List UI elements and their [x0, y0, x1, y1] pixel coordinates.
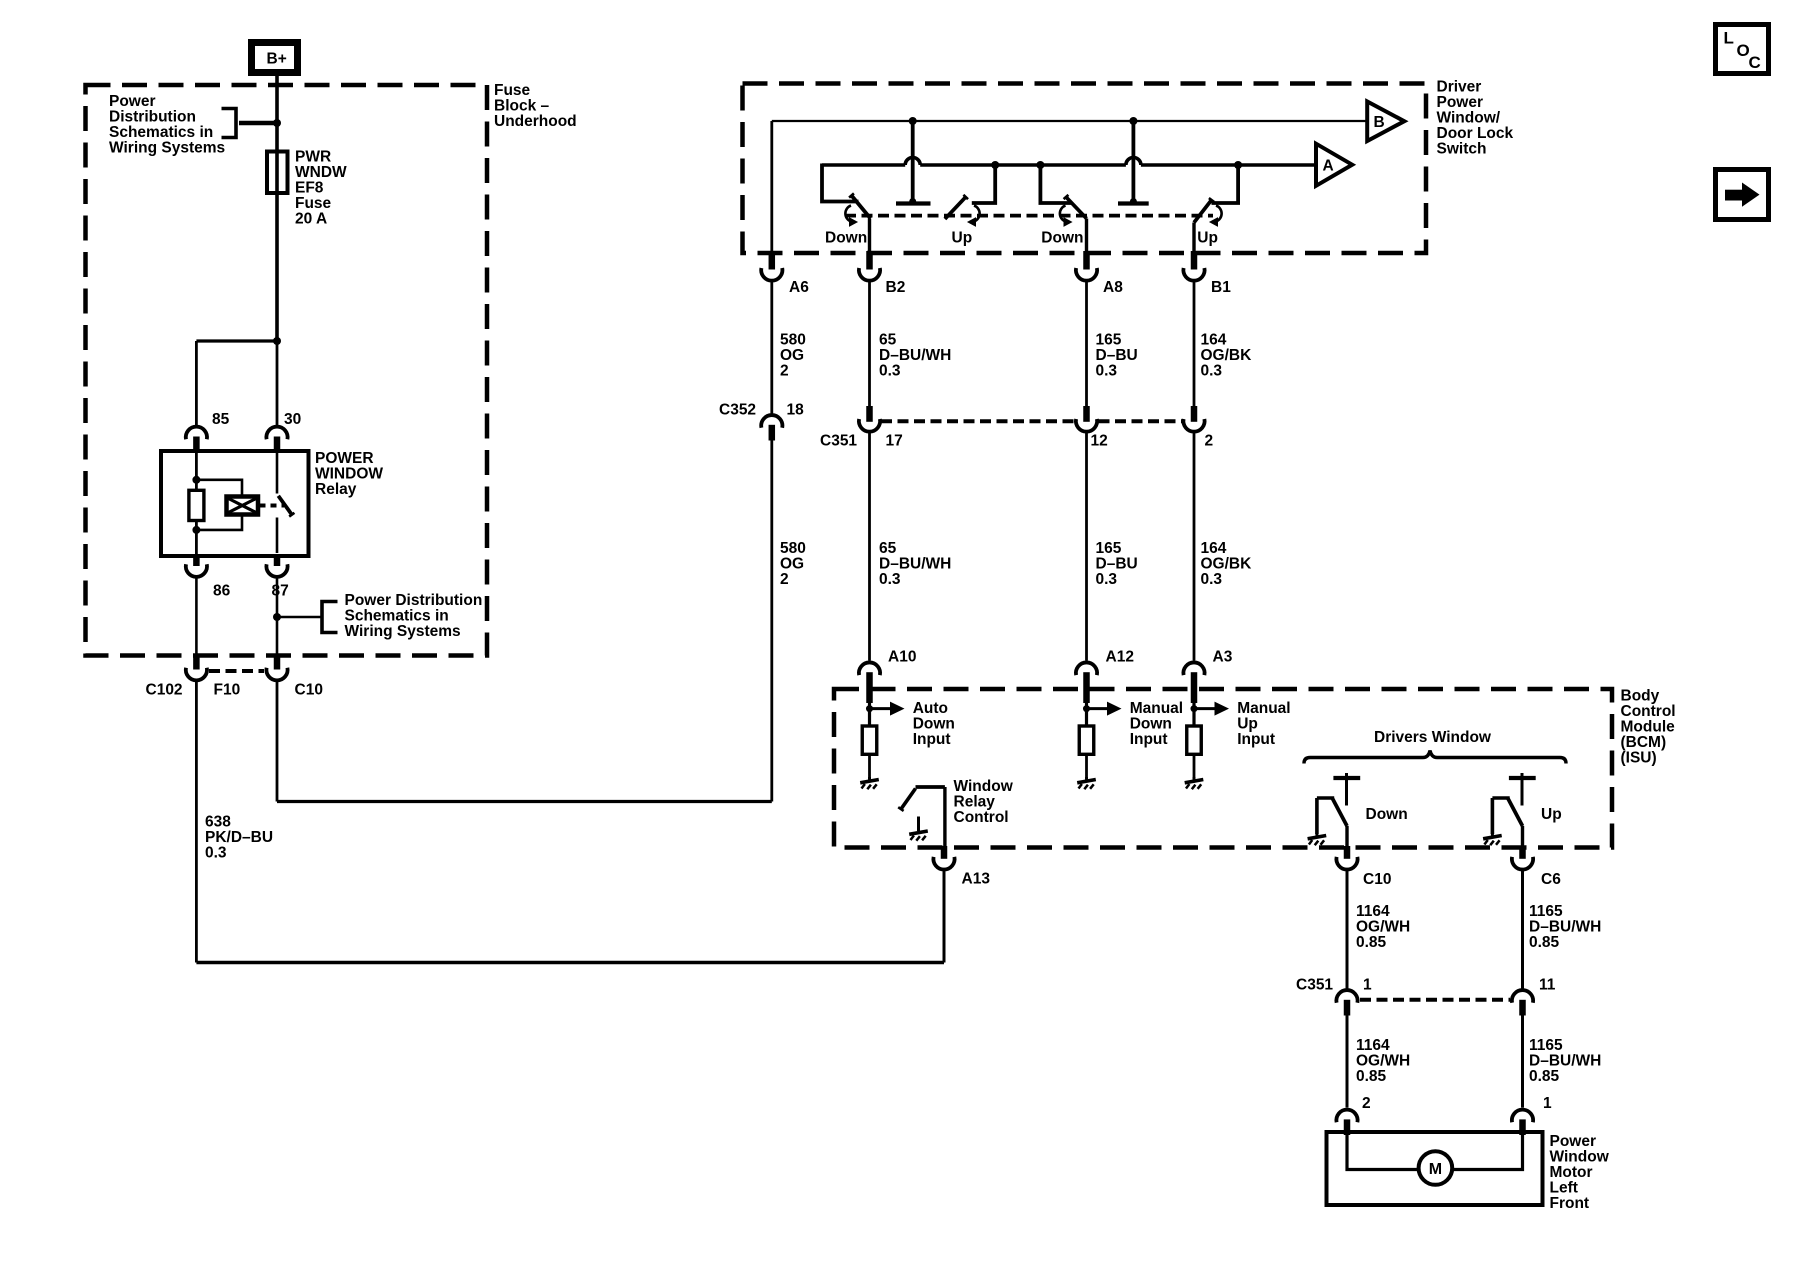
label Driver Power Window/ Door Lock Switch — [1437, 78, 1514, 157]
svg-text:164: 164 — [1201, 331, 1227, 348]
wire window relay control output — [943, 787, 946, 848]
label fuse PWR WNDW EF8 Fuse 20 A — [295, 149, 347, 228]
connector pin A10 — [859, 662, 880, 675]
icon LOC box — [1716, 25, 1769, 74]
wire to power distribution bracket — [239, 121, 277, 126]
connector pin 30 — [266, 427, 287, 440]
connector pin A13 — [941, 846, 948, 859]
wire 580 OG segment 1 — [770, 281, 773, 415]
resistor Auto Down Input — [862, 726, 877, 754]
icon forward arrow box — [1716, 170, 1769, 220]
svg-text:1164: 1164 — [1356, 1037, 1390, 1054]
wire motor feed left — [1347, 1135, 1419, 1170]
svg-text:Down: Down — [1041, 229, 1083, 246]
wire S1 Down output to B2 — [868, 219, 871, 254]
svg-text:Wiring Systems: Wiring Systems — [109, 140, 225, 157]
node junction to power distribution (bottom) — [273, 613, 281, 621]
connector pin B1 — [1191, 251, 1198, 270]
svg-text:Relay: Relay — [315, 481, 357, 498]
svg-text:A3: A3 — [1213, 649, 1233, 666]
svg-text:Manual: Manual — [1237, 700, 1290, 717]
svg-text:Power: Power — [1437, 94, 1484, 111]
wire 1164 OG/WH segment 2 — [1346, 1016, 1349, 1108]
label Auto Down Input — [913, 700, 955, 748]
svg-text:0.3: 0.3 — [205, 845, 227, 862]
wire 1164 OG/WH segment 1 — [1346, 871, 1349, 990]
svg-text:Fuse: Fuse — [494, 82, 531, 99]
svg-text:D–BU/WH: D–BU/WH — [1529, 918, 1601, 935]
svg-text:Wiring Systems: Wiring Systems — [345, 623, 461, 640]
svg-text:87: 87 — [272, 583, 289, 600]
node coil top — [192, 476, 200, 484]
svg-text:Drivers Window: Drivers Window — [1374, 729, 1492, 746]
connector C351 dashed link b — [1099, 419, 1183, 423]
switch S1 common T contact — [911, 121, 915, 202]
switch drivers window Down arm — [1332, 798, 1347, 826]
wire pin 86 down — [195, 578, 198, 657]
svg-text:C102: C102 — [146, 681, 183, 698]
resistor Manual Up Input — [1187, 726, 1202, 754]
svg-text:0.3: 0.3 — [1096, 362, 1118, 379]
switch S1 Up stationary contact — [972, 165, 995, 203]
node Auto Down Input tap — [866, 705, 873, 712]
svg-text:Underhood: Underhood — [494, 113, 577, 130]
wire relay coil bottom — [195, 521, 198, 557]
svg-text:638: 638 — [205, 814, 231, 831]
svg-text:Power: Power — [1550, 1133, 1597, 1150]
svg-text:OG: OG — [780, 556, 804, 573]
svg-text:D–BU: D–BU — [1096, 347, 1138, 364]
body control module dashed box — [834, 689, 1612, 848]
svg-text:L: L — [1724, 29, 1734, 48]
svg-text:Block –: Block – — [494, 98, 550, 115]
svg-text:17: 17 — [886, 433, 903, 450]
wire crossover hump 1 — [905, 158, 920, 165]
bracket power distribution (top) — [222, 109, 237, 138]
svg-text:D–BU: D–BU — [1096, 556, 1138, 573]
svg-text:C352: C352 — [719, 402, 756, 419]
node coil bottom — [192, 526, 200, 534]
wire 164 OG/BK segment 1 — [1193, 281, 1196, 407]
label wire 65 D-BU/WH 0.3 (upper) — [879, 331, 951, 379]
svg-text:Power Distribution: Power Distribution — [345, 592, 483, 609]
svg-text:Up: Up — [1237, 715, 1258, 732]
svg-text:C6: C6 — [1541, 871, 1561, 888]
svg-text:Front: Front — [1550, 1195, 1590, 1212]
relay K - POWER WINDOW Relay box — [161, 451, 309, 556]
label wire 1165 D-BU/WH 0.85 (lower) — [1529, 1037, 1601, 1085]
arrow Auto Down Input — [870, 707, 891, 710]
svg-text:18: 18 — [787, 402, 805, 419]
svg-text:Module: Module — [1621, 719, 1676, 736]
wire Manual Up Input to ground — [1193, 754, 1196, 778]
svg-text:Down: Down — [913, 715, 955, 732]
svg-text:0.85: 0.85 — [1356, 1068, 1387, 1085]
svg-text:165: 165 — [1096, 331, 1122, 348]
svg-text:65: 65 — [879, 331, 897, 348]
svg-text:65: 65 — [879, 540, 897, 557]
svg-text:1: 1 — [1543, 1095, 1552, 1112]
ground drivers window Up — [1483, 833, 1502, 845]
svg-text:Power: Power — [109, 93, 156, 110]
label POWER WINDOW Relay — [315, 450, 383, 498]
svg-text:580: 580 — [780, 540, 806, 557]
svg-text:0.85: 0.85 — [1356, 934, 1387, 951]
label Fuse Block - Underhood — [494, 82, 577, 130]
connector motor pin 1 — [1512, 1110, 1533, 1123]
svg-text:0.3: 0.3 — [1201, 362, 1223, 379]
svg-text:B2: B2 — [886, 279, 906, 296]
wire branch to relay pin 85 — [196, 339, 277, 342]
svg-text:C: C — [1749, 53, 1761, 72]
switch drivers window Down ground leg — [1317, 796, 1334, 800]
svg-text:2: 2 — [1205, 433, 1214, 450]
label Power Distribution Schematics in Wiring Systems (bottom) — [345, 592, 483, 640]
wire 1165 D-BU/WH segment 1 — [1521, 871, 1524, 990]
svg-text:2: 2 — [780, 362, 789, 379]
wire Manual Down Input pull-down — [1085, 703, 1088, 726]
svg-text:1165: 1165 — [1529, 1037, 1563, 1054]
svg-text:1: 1 — [1363, 976, 1372, 993]
power node B+ — [252, 43, 298, 73]
svg-text:2: 2 — [1362, 1095, 1371, 1112]
svg-text:Window: Window — [1550, 1149, 1610, 1166]
svg-text:1164: 1164 — [1356, 903, 1390, 920]
ground window relay control — [909, 829, 928, 841]
svg-text:1165: 1165 — [1529, 903, 1563, 920]
svg-text:Input: Input — [1237, 731, 1275, 748]
ground Manual Down Input — [1077, 777, 1096, 789]
wire coil loop — [196, 480, 242, 497]
svg-text:OG/BK: OG/BK — [1201, 556, 1253, 573]
label wire 165 D-BU 0.3 (lower) — [1096, 540, 1138, 588]
wire bus B (upper) — [772, 120, 1367, 122]
switch S2 common T contact — [1132, 121, 1136, 202]
connector pin 86 — [193, 554, 200, 566]
power window motor box — [1327, 1132, 1543, 1205]
svg-text:F10: F10 — [214, 681, 241, 698]
wire S2 Down output to A8 — [1085, 219, 1088, 254]
svg-text:OG/WH: OG/WH — [1356, 918, 1410, 935]
svg-text:Door Lock: Door Lock — [1437, 125, 1514, 142]
svg-text:Auto: Auto — [913, 700, 948, 717]
wire to relay pin 30 — [276, 341, 279, 426]
wire 65 D-BU/WH segment 1 — [868, 281, 871, 407]
svg-text:PK/D–BU: PK/D–BU — [205, 829, 273, 846]
svg-text:Down: Down — [1130, 715, 1172, 732]
svg-text:0.3: 0.3 — [879, 571, 901, 588]
svg-text:Manual: Manual — [1130, 700, 1183, 717]
connector pin 87 — [274, 554, 281, 566]
svg-text:Up: Up — [1541, 806, 1562, 823]
svg-text:D–BU/WH: D–BU/WH — [879, 556, 951, 573]
connector motor pin 2 — [1336, 1110, 1357, 1123]
arrow Manual Down Input — [1087, 707, 1108, 710]
buffer triangle A — [1316, 144, 1352, 186]
switch S2 Down arm — [1066, 197, 1087, 219]
switch S2 Up stationary contact — [1212, 165, 1239, 203]
wire 638 PK/D-BU vertical — [195, 682, 198, 963]
svg-text:C351: C351 — [820, 433, 857, 450]
label Manual Down Input — [1130, 700, 1183, 748]
relay actuator dashed link — [260, 504, 285, 508]
svg-text:0.3: 0.3 — [879, 362, 901, 379]
wire Manual Down Input to ground — [1085, 754, 1088, 778]
svg-text:Input: Input — [1130, 731, 1168, 748]
label wire 580 OG 2 (lower) — [780, 540, 806, 588]
svg-text:Control: Control — [954, 809, 1009, 826]
svg-text:D–BU/WH: D–BU/WH — [879, 347, 951, 364]
connector C351 pin 17 — [866, 406, 873, 422]
switch S2 Down stationary contact — [1040, 165, 1072, 203]
switch S1 Up arm — [945, 197, 966, 219]
switch S1 Down momentary arrow — [845, 206, 851, 222]
connector C351 pin 2 — [1191, 406, 1198, 422]
svg-text:Window/: Window/ — [1437, 109, 1501, 126]
motor M symbol — [1419, 1151, 1453, 1185]
wire motor feed right — [1452, 1135, 1522, 1170]
switch window relay control arm — [901, 789, 916, 810]
node bus A tap 3 — [1234, 161, 1242, 169]
connector pin A3 — [1183, 662, 1204, 675]
wire crossover hump 2 — [1126, 158, 1141, 165]
arrow Manual Up Input — [1194, 707, 1215, 710]
switch window relay control contact — [916, 785, 945, 789]
svg-text:(ISU): (ISU) — [1621, 750, 1657, 767]
label wire 164 OG/BK 0.3 (upper) — [1201, 331, 1253, 379]
svg-text:86: 86 — [213, 583, 231, 600]
switch drivers window Up arm — [1508, 798, 1523, 826]
svg-text:A: A — [1323, 158, 1334, 175]
svg-text:A8: A8 — [1103, 279, 1123, 296]
buffer triangle B — [1367, 102, 1404, 142]
relay switch arm — [278, 496, 292, 515]
svg-text:Relay: Relay — [954, 793, 996, 810]
svg-text:Up: Up — [1197, 229, 1218, 246]
svg-text:A12: A12 — [1106, 649, 1134, 666]
svg-text:Input: Input — [913, 731, 951, 748]
svg-text:B+: B+ — [267, 51, 287, 68]
svg-text:85: 85 — [212, 411, 230, 428]
label Power Distribution Schematics in Wiring Systems (top) — [109, 93, 225, 157]
svg-text:164: 164 — [1201, 540, 1227, 557]
switch S1 Up momentary arrow — [974, 206, 980, 222]
svg-text:165: 165 — [1096, 540, 1122, 557]
wire Auto Down Input pull-down — [868, 703, 871, 726]
label wire 165 D-BU 0.3 (upper) — [1096, 331, 1138, 379]
connector pin A6 — [769, 251, 776, 270]
svg-text:Control: Control — [1621, 703, 1676, 720]
bracket power distribution (bottom) — [322, 602, 338, 633]
svg-text:0.3: 0.3 — [1096, 571, 1118, 588]
connector C351 dashed link a — [881, 419, 1075, 423]
label Window Relay Control — [954, 778, 1014, 826]
connector pin B2 — [866, 251, 873, 270]
label Manual Up Input — [1237, 700, 1290, 748]
switch S2 Up arm — [1194, 200, 1212, 223]
wire 165 D-BU segment 2 — [1085, 432, 1088, 661]
svg-text:OG/BK: OG/BK — [1201, 347, 1253, 364]
label wire 65 D-BU/WH 0.3 (lower) — [879, 540, 951, 588]
svg-text:Body: Body — [1621, 688, 1660, 705]
ground Manual Up Input — [1185, 777, 1204, 789]
svg-text:12: 12 — [1091, 433, 1108, 450]
node bus A tap 1 — [991, 161, 999, 169]
svg-text:Schematics in: Schematics in — [109, 124, 213, 141]
label Power Window Motor Left Front — [1550, 1133, 1610, 1212]
window relay control ground contact — [917, 817, 920, 830]
wire 65 D-BU/WH segment 2 — [868, 432, 871, 661]
switch S2 Up momentary arrow — [1216, 206, 1222, 222]
svg-text:Down: Down — [1366, 806, 1408, 823]
svg-text:Distribution: Distribution — [109, 109, 196, 126]
label wire 1164 OG/WH 0.85 (lower) — [1356, 1037, 1410, 1085]
wire relay coil top — [195, 451, 198, 490]
node bus B tap 2 — [1129, 117, 1137, 125]
svg-text:0.85: 0.85 — [1529, 934, 1560, 951]
svg-text:Up: Up — [952, 229, 973, 246]
svg-text:C351: C351 — [1296, 976, 1333, 993]
connector C351 dashed link (lower) — [1360, 998, 1510, 1002]
switch S1 Down arm — [852, 196, 871, 219]
svg-text:Left: Left — [1550, 1180, 1578, 1197]
svg-text:2: 2 — [780, 571, 789, 588]
fuse PWR WNDW EF8 20A — [267, 152, 288, 194]
svg-text:B1: B1 — [1211, 279, 1231, 296]
node relay feed junction — [273, 337, 281, 345]
wire 580 OG from C10 to C352 riser — [276, 682, 279, 802]
fuse block dashed box — [86, 85, 488, 656]
label wire 1165 D-BU/WH 0.85 (upper) — [1529, 903, 1601, 951]
connector C351 pin 11 — [1512, 990, 1533, 1003]
switch mechanical linkage dashed line — [845, 214, 1213, 218]
wire drivers window Up output — [1521, 826, 1524, 847]
wire Auto Down Input to ground — [868, 754, 871, 778]
svg-text:C10: C10 — [295, 681, 323, 698]
label wire 580 OG 2 (upper) — [780, 331, 806, 379]
node Manual Down Input tap — [1083, 705, 1090, 712]
svg-text:Schematics in: Schematics in — [345, 608, 449, 625]
wire to power distribution bracket (bottom) — [277, 616, 322, 619]
connector pin A12 — [1076, 662, 1097, 675]
svg-text:Driver: Driver — [1437, 78, 1482, 95]
ground Auto Down Input — [860, 777, 879, 789]
svg-text:11: 11 — [1539, 976, 1556, 993]
node junction to power distribution — [273, 119, 281, 127]
switch drivers window Up fixed contact — [1509, 776, 1536, 780]
svg-text:Switch: Switch — [1437, 140, 1487, 157]
label wire 164 OG/BK 0.3 (lower) — [1201, 540, 1253, 588]
driver power window/door lock switch dashed box — [743, 84, 1427, 254]
node bus A tap 2 — [1036, 161, 1044, 169]
connector row dashed link C102 — [209, 669, 264, 673]
node Manual Up Input tap — [1191, 705, 1198, 712]
svg-text:B: B — [1374, 114, 1385, 131]
node bus B tap 1 — [909, 117, 917, 125]
svg-text:A13: A13 — [962, 870, 991, 887]
connector C352 pin 18 — [761, 415, 782, 428]
svg-text:580: 580 — [780, 331, 806, 348]
svg-text:0.85: 0.85 — [1529, 1068, 1560, 1085]
svg-text:Window: Window — [954, 778, 1014, 795]
relay coil winding symbol — [227, 497, 259, 515]
wire 164 OG/BK segment 2 — [1193, 432, 1196, 661]
switch drivers window Up ground leg — [1492, 796, 1509, 800]
switch S1 Down stationary contact — [822, 164, 859, 202]
brace drivers window — [1304, 751, 1566, 764]
svg-text:30: 30 — [284, 411, 301, 428]
label Body Control Module (BCM) (ISU) — [1621, 688, 1676, 767]
svg-text:20 A: 20 A — [295, 210, 327, 227]
relay switch contact 87 side — [276, 518, 279, 554]
connector pin A8 — [1083, 251, 1090, 270]
connector pin C10 (BCM) — [1344, 846, 1351, 859]
svg-text:0.3: 0.3 — [1201, 571, 1223, 588]
wire drivers window Down output — [1345, 826, 1348, 847]
wire 165 D-BU segment 1 — [1085, 281, 1088, 407]
svg-text:Motor: Motor — [1550, 1164, 1593, 1181]
svg-text:Down: Down — [825, 229, 867, 246]
switch drivers window Down fixed contact — [1333, 776, 1360, 780]
wire S2 Up output to B1 — [1192, 223, 1195, 254]
svg-text:D–BU/WH: D–BU/WH — [1529, 1052, 1601, 1069]
wire pin 87 down — [276, 578, 279, 657]
resistor relay coil suppression — [189, 490, 204, 520]
wire A6 drop — [770, 121, 773, 253]
connector C10 (fuse block) — [274, 654, 281, 670]
svg-text:A10: A10 — [888, 649, 916, 666]
connector pin 85 — [186, 427, 207, 440]
connector pin C6 — [1519, 846, 1526, 859]
svg-text:M: M — [1429, 1161, 1442, 1178]
connector C102 F10 — [193, 654, 200, 670]
relay switch contact 30 side — [276, 453, 279, 494]
label wire 638 PK/D-BU 0.3 — [205, 814, 273, 862]
svg-text:A6: A6 — [789, 279, 809, 296]
wire 638 bottom run to A13 — [196, 961, 944, 965]
svg-text:C10: C10 — [1363, 871, 1391, 888]
svg-text:OG: OG — [780, 347, 804, 364]
connector C351 pin 12 — [1083, 406, 1090, 422]
wire Manual Up Input pull-down — [1192, 703, 1195, 726]
resistor Manual Down Input — [1079, 726, 1094, 754]
wire B+ feed vertical — [275, 74, 279, 341]
svg-text:OG/WH: OG/WH — [1356, 1052, 1410, 1069]
label wire 1164 OG/WH 0.85 (upper) — [1356, 903, 1410, 951]
wire 1165 D-BU/WH segment 2 — [1521, 1016, 1524, 1108]
svg-text:(BCM): (BCM) — [1621, 734, 1667, 751]
connector C351 pin 1 — [1336, 990, 1357, 1003]
switch S2 Down momentary arrow — [1060, 206, 1066, 222]
wire bus A (lower) — [822, 163, 1316, 167]
ground drivers window Down — [1308, 833, 1327, 845]
